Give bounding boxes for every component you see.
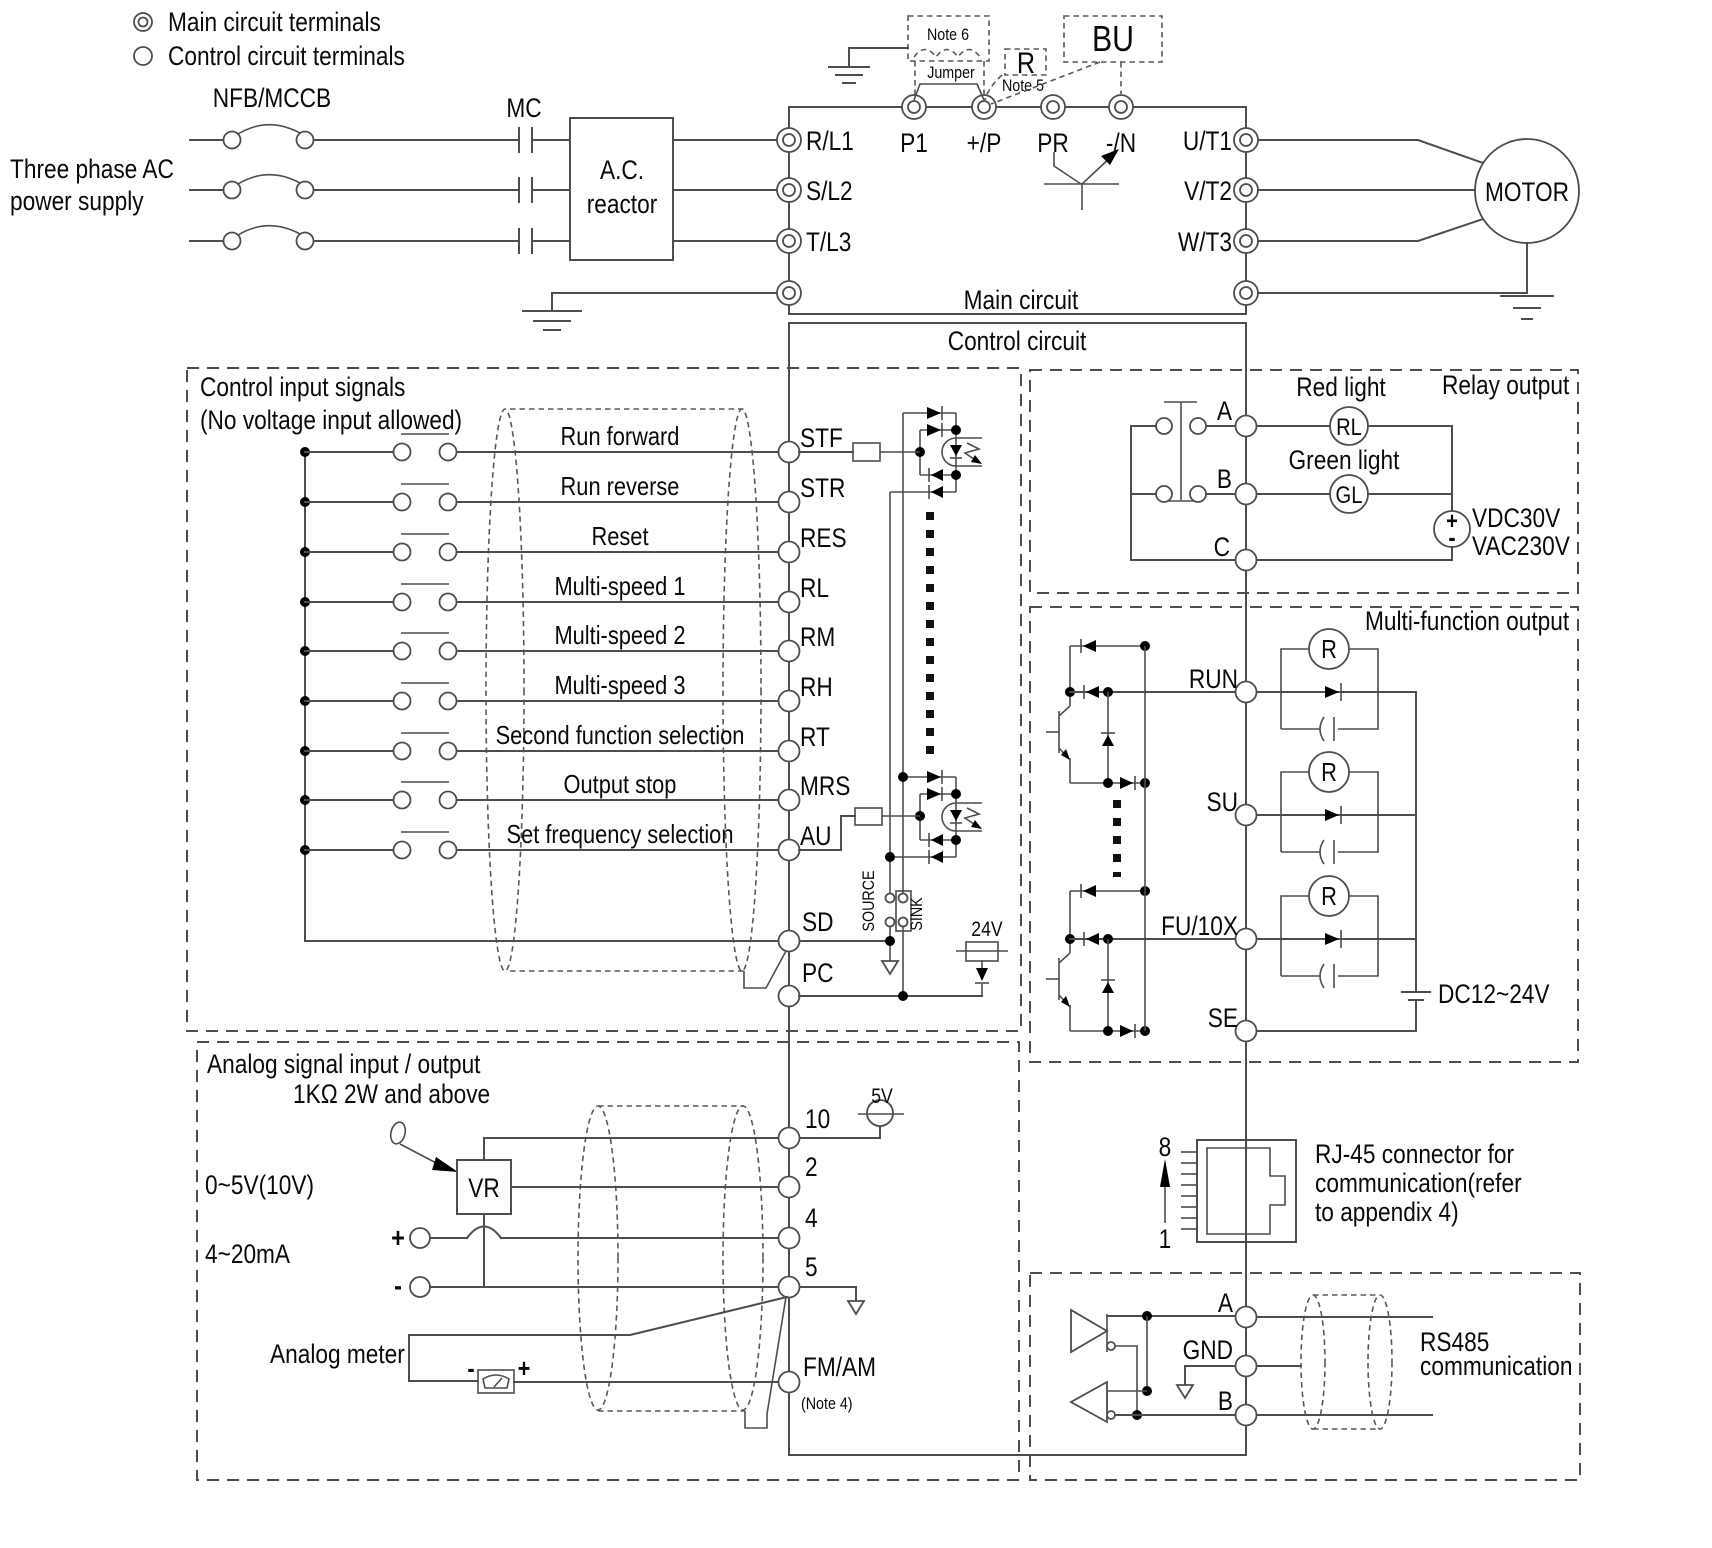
dashed drop to P1 [914, 61, 916, 98]
node B branch [1132, 1410, 1142, 1420]
relay contact A pair [1156, 418, 1206, 434]
diode IC1 (STF/STR input) inner top [927, 423, 942, 437]
node Q2 (FU/10X) collector-row [1065, 934, 1075, 944]
node: bus junction RES [300, 547, 310, 557]
diode Q2 (FU/10X) freewheel (up) [1101, 980, 1115, 993]
node IC2 (MRS/AU input) rail top [951, 789, 961, 799]
wire Q1 (RUN) bottom [1070, 782, 1145, 784]
wire bus to switch RM [305, 650, 393, 652]
ground wire top-left [849, 48, 908, 67]
wire reactor to R/L1 [673, 139, 777, 141]
opto IC2 (MRS/AU input): LED outline [942, 803, 956, 831]
svg-text:communication: communication [1420, 1351, 1572, 1381]
relay contact B pair [1156, 486, 1206, 502]
wire bus to switch AU [305, 849, 393, 851]
diode Q1 (RUN) freewheel (up) [1101, 733, 1115, 746]
svg-text:Main circuit terminals: Main circuit terminals [168, 7, 381, 37]
terminal RUN [1236, 682, 1257, 703]
jumper pin sink top [899, 894, 908, 903]
R dashed box (brake resistor) [1005, 49, 1046, 75]
relay armature bar [1162, 402, 1199, 501]
diode IC2 (MRS/AU input) outer top [927, 770, 942, 784]
control circuit right rail [1245, 323, 1247, 1455]
wire SD row [305, 940, 777, 942]
relay coil RUN [1309, 629, 1349, 669]
node Q1 (RUN) row-mid [1103, 687, 1113, 697]
svg-text:Control circuit terminals: Control circuit terminals [168, 41, 405, 71]
node: bus junction RT [300, 746, 310, 756]
svg-text:24V: 24V [971, 918, 1002, 942]
svg-text:SINK: SINK [908, 897, 926, 931]
opto IC1 (STF/STR input): cathode rail [955, 413, 957, 492]
opto IC1 (STF/STR input): LED outline [942, 438, 956, 466]
lamp RL [1330, 407, 1368, 445]
node sink rail at outer top 2 [898, 772, 908, 782]
opto IC1 (STF/STR input): outer top wire [903, 412, 956, 414]
svg-text:DC12~24V: DC12~24V [1438, 979, 1550, 1009]
svg-text:STR: STR [800, 473, 845, 503]
node: bus junction STR [300, 497, 310, 507]
wire GND to shield [1257, 1365, 1301, 1367]
wire reactor to T/L3 [673, 240, 777, 242]
svg-text:2: 2 [805, 1152, 818, 1182]
svg-text:SU: SU [1207, 787, 1238, 817]
node: bus junction RL [300, 597, 310, 607]
wire source jumper to SD [889, 927, 891, 961]
transistor Q2 (FU/10X) [1046, 953, 1070, 1007]
inductor (dashed) in Note 6 [914, 50, 980, 58]
node Q1 (RUN) bus-bottom [1140, 778, 1150, 788]
svg-text:R: R [1017, 46, 1035, 80]
terminal ground left [777, 281, 801, 305]
terminal -/N [1109, 95, 1133, 119]
relay coil SU [1309, 752, 1349, 792]
svg-text:+/P: +/P [967, 128, 1002, 158]
wire MC to reactor T [534, 240, 570, 242]
potentiometer VR box [457, 1160, 511, 1214]
terminal GND [1236, 1356, 1257, 1377]
wire SE to bus [1257, 1030, 1416, 1032]
contactor MC pole T [519, 229, 532, 253]
svg-text:VDC30V: VDC30V [1472, 503, 1561, 533]
wire SD to source jumper [800, 940, 890, 942]
ground triangle GND [1177, 1385, 1193, 1398]
opto IC1 (STF/STR input): light arrow [965, 443, 982, 464]
wire A branch down to receiver [1146, 1316, 1148, 1391]
svg-text:4: 4 [805, 1203, 818, 1233]
svg-text:AU: AU [800, 821, 831, 851]
relay coil FU/10X [1309, 876, 1349, 916]
transistor Q1 (RUN) [1046, 706, 1070, 760]
diode Q2 (FU/10X) row [1084, 932, 1099, 946]
diode IC1 (STF/STR input) inner bottom [929, 468, 943, 482]
jumper pin source bottom [886, 918, 895, 927]
wire meter to FM/AM [514, 1381, 777, 1383]
svg-text:BU: BU [1092, 20, 1134, 60]
wire ground right to motor ground [1258, 292, 1527, 294]
wire contact A to terminal A [1206, 425, 1235, 427]
wire bus to switch STR [305, 501, 393, 503]
diode 24V supply [975, 960, 989, 983]
svg-text:PR: PR [1037, 128, 1068, 158]
capacitor SU [1320, 840, 1334, 864]
jumper pin source top [886, 894, 895, 903]
diode RUN wire [1325, 683, 1341, 701]
wire switch to terminal STR [457, 501, 777, 503]
pin order arrow [1160, 1159, 1170, 1223]
dotted continuation multifunction [1113, 800, 1121, 877]
wire Q1 (RUN) collector leg [1069, 646, 1071, 706]
wire GL to source leg [1368, 493, 1452, 495]
RJ-45 jack opening [1207, 1148, 1285, 1234]
meter box [478, 1370, 514, 1393]
dashed link BU to +/P [991, 62, 1100, 104]
switch RES [394, 534, 457, 561]
opto IC1 (STF/STR input): outer bottom wire [890, 491, 956, 493]
wire MC to reactor R [534, 139, 570, 141]
svg-text:A.C.: A.C. [600, 155, 644, 185]
wire B contact to common [1131, 493, 1156, 495]
node: bus junction RM [300, 646, 310, 656]
svg-text:MC: MC [506, 93, 541, 123]
legend symbol: main circuit terminal [134, 13, 152, 31]
Note 6 dashed box [908, 16, 989, 61]
wire switch to terminal RT [457, 750, 777, 752]
RJ-45 pins [1181, 1152, 1197, 1229]
svg-text:10: 10 [805, 1104, 830, 1134]
24V supply box [956, 942, 1008, 961]
terminal W/T3 [1234, 229, 1258, 253]
wire Q2 (FU/10X) collector leg [1069, 891, 1071, 953]
switch MRS [394, 782, 457, 809]
terminal 4 [779, 1228, 800, 1249]
breaker NFB pole T: contacts and blade [224, 226, 314, 250]
svg-text:RT: RT [800, 722, 830, 752]
source VDC30V/VAC230V [1434, 507, 1470, 560]
diode IC1 (STF/STR input) outer bottom [929, 485, 943, 499]
svg-text:R: R [1321, 758, 1337, 787]
svg-text:+: + [391, 1223, 405, 1253]
diode Q2 (FU/10X) bottom [1120, 1024, 1135, 1038]
wire GND to ground [1185, 1366, 1235, 1385]
wire sink jumper to PC wire [902, 927, 904, 996]
terminal PR [1041, 95, 1065, 119]
terminal B (RS485) [1236, 1405, 1257, 1426]
svg-text:+: + [518, 1354, 531, 1383]
node: bus junction MRS [300, 795, 310, 805]
terminal A (RS485) [1236, 1307, 1257, 1328]
resistor AU input [799, 808, 920, 850]
svg-text:MRS: MRS [800, 771, 850, 801]
node Q2 (FU/10X) top-bus [1140, 886, 1150, 896]
ground symbol bottom-left [523, 311, 581, 330]
opto IC2 (MRS/AU input): cathode rail [955, 777, 957, 857]
node IC1 (STF/STR input) rail top [951, 425, 961, 435]
wire switch to terminal RM [457, 650, 777, 652]
svg-text:Reset: Reset [591, 522, 648, 551]
wire minus to terminal 5 [430, 1286, 777, 1288]
wire contact B to terminal B [1206, 493, 1235, 495]
switch RH [394, 683, 457, 710]
svg-text:RES: RES [800, 523, 847, 553]
ground triangle at 5 [848, 1301, 864, 1314]
transistor block Q2 (FU/10X): top clamp wire [1070, 890, 1145, 892]
svg-text:Set frequency selection: Set frequency selection [507, 820, 734, 849]
RJ-45 connector outer body [1197, 1140, 1296, 1242]
shield oval analog: right cap [723, 1106, 763, 1410]
terminal MRS [779, 790, 800, 811]
control circuit left rail [788, 323, 790, 1455]
terminal SD [779, 931, 800, 952]
opto IC2 (MRS/AU input): light arrow [965, 808, 982, 829]
svg-text:4~20mA: 4~20mA [205, 1239, 290, 1269]
relay coil loop SU: frame [1281, 772, 1378, 852]
terminal C [1236, 550, 1257, 571]
jumper bracket P1 to +/P [914, 84, 984, 100]
opto IC2 (MRS/AU input): inner top wire [920, 793, 956, 795]
brake transistor emitter arrow to -/N [1082, 149, 1119, 184]
diode IC2 (MRS/AU input) outer bottom [929, 850, 943, 864]
svg-text:Run forward: Run forward [561, 422, 680, 451]
terminal U/T1 [1234, 128, 1258, 152]
terminal 5 [779, 1277, 800, 1298]
svg-text:0~5V(10V): 0~5V(10V) [205, 1170, 314, 1200]
terminal S/L2 [777, 178, 801, 202]
terminal V/T2 [1234, 178, 1258, 202]
RS485 receiver buffer [1071, 1382, 1107, 1422]
wire R to MC [314, 139, 517, 141]
svg-text:5: 5 [805, 1252, 818, 1282]
svg-text:to appendix 4): to appendix 4) [1315, 1197, 1459, 1227]
svg-text:A: A [1218, 1288, 1233, 1318]
capacitor FU/10X [1320, 964, 1334, 988]
wire switch to terminal AU [457, 849, 777, 851]
relay coil loop RUN: frame [1281, 649, 1378, 729]
shield oval analog: bottom [598, 1410, 745, 1412]
wire RUN to bus [1257, 691, 1416, 693]
svg-text:RJ-45 connector for: RJ-45 connector for [1315, 1139, 1514, 1169]
ground symbol motor [1501, 296, 1553, 319]
wire reactor to S/L2 [673, 189, 777, 191]
opto IC2 (MRS/AU input): outer top wire [903, 776, 956, 778]
terminal circle minus [410, 1277, 430, 1297]
node IC1 (STF/STR input) signal feed [915, 447, 925, 457]
wire C to source [1257, 559, 1452, 561]
svg-text:Multi-speed 1: Multi-speed 1 [554, 572, 685, 601]
svg-text:R: R [1321, 882, 1337, 911]
svg-text:RL: RL [800, 573, 829, 603]
opto IC1 (STF/STR input): LED diode [950, 445, 962, 458]
opto IC1 (STF/STR input): inner top wire [920, 429, 956, 431]
main circuit box [789, 107, 1246, 314]
svg-text:R/L1: R/L1 [806, 126, 854, 156]
relay output dashed box [1030, 370, 1578, 593]
brake transistor lower lead [1081, 184, 1083, 210]
diode FU wire [1325, 930, 1341, 948]
wire A to cable [1257, 1316, 1432, 1318]
svg-text:8: 8 [1159, 1132, 1172, 1162]
svg-text:Main circuit: Main circuit [964, 285, 1079, 315]
wire lamps to source [1368, 426, 1452, 512]
wire to terminal B [1115, 1414, 1235, 1416]
opto IC1 (STF/STR input): inner left leg [919, 430, 921, 475]
motor circle [1475, 139, 1579, 243]
opto IC2 (MRS/AU input): LED diode [950, 810, 962, 823]
terminal P1 [902, 95, 926, 119]
callout loop and arrow to VR [389, 1121, 458, 1172]
svg-text:R: R [1321, 635, 1337, 664]
node PC junction [898, 991, 908, 1001]
wire left ground terminal [552, 293, 777, 311]
shield oval control input: top [510, 408, 744, 410]
svg-text:GND: GND [1183, 1335, 1233, 1365]
diode SU wire [1325, 806, 1341, 824]
analog signal dashed box [197, 1042, 1019, 1480]
diode Q1 (RUN) top clamp [1081, 639, 1096, 653]
svg-text:(Note 4): (Note 4) [801, 1395, 853, 1413]
BU dashed box (brake unit) [1064, 16, 1162, 62]
terminal STF [779, 442, 800, 463]
opto IC2 (MRS/AU input): outer bottom wire [890, 856, 956, 858]
wire Q2 (FU/10X) bottom [1070, 1030, 1145, 1032]
wire bus to switch MRS [305, 799, 393, 801]
svg-text:C: C [1214, 532, 1230, 562]
wire bus to switch RH [305, 700, 393, 702]
terminal R/L1 [777, 128, 801, 152]
terminal AU [779, 840, 800, 861]
svg-text:communication(refer: communication(refer [1315, 1168, 1522, 1198]
svg-text:Relay output: Relay output [1442, 370, 1569, 400]
svg-text:Analog meter: Analog meter [270, 1339, 405, 1369]
capacitor RUN [1320, 717, 1334, 741]
terminal RL [779, 592, 800, 613]
load bus right [1415, 692, 1417, 992]
RS485 driver buffer [1071, 1310, 1107, 1352]
A.C. reactor box [570, 118, 673, 260]
svg-text:Note 6: Note 6 [927, 26, 969, 44]
wire T to MC [314, 240, 517, 242]
wire B to cable [1257, 1414, 1432, 1416]
wire bubble link down [1115, 1346, 1137, 1415]
terminal SE [1236, 1021, 1257, 1042]
switch STF [394, 434, 457, 461]
transistor block Q1 (RUN): top clamp wire [1070, 645, 1145, 647]
opto IC1 (STF/STR input): LED leads [956, 438, 982, 466]
terminal RM [779, 641, 800, 662]
shield oval control input: bottom [510, 970, 744, 972]
svg-text:RH: RH [800, 672, 833, 702]
motor ground stem [1526, 243, 1528, 293]
dashed link BU to -/N [1120, 62, 1122, 94]
svg-text:RM: RM [800, 622, 835, 652]
terminal RH [779, 691, 800, 712]
terminal circle plus [410, 1228, 430, 1248]
svg-text:Control circuit: Control circuit [948, 326, 1087, 356]
svg-text:reactor: reactor [587, 189, 658, 219]
lamp GL [1330, 475, 1368, 513]
terminal SU [1236, 805, 1257, 826]
dashed link R box to +/P [985, 75, 1002, 100]
control circuit bottom wire [789, 1454, 1246, 1456]
svg-text:A: A [1217, 396, 1232, 426]
wire A to RL [1257, 425, 1330, 427]
svg-text:Three phase AC: Three phase AC [10, 154, 174, 184]
node: bus junction RH [300, 696, 310, 706]
24V internal supply: stem [981, 984, 983, 996]
jumper block SINK position [896, 891, 911, 931]
diode Q1 (RUN) bottom [1120, 776, 1135, 790]
shield oval control input: right cap [723, 409, 761, 971]
shield drain to SD [744, 951, 786, 988]
opto IC1 (STF/STR input): inner bottom wire [920, 474, 956, 476]
terminal RT [779, 741, 800, 762]
svg-text:Red light: Red light [1296, 372, 1386, 402]
shield oval analog: left cap [578, 1106, 618, 1410]
wire VR bottom leg [483, 1214, 485, 1287]
control circuit box top edge [789, 322, 1246, 324]
shield oval analog: top [598, 1105, 743, 1107]
wire terminal 5 to ground [800, 1287, 856, 1301]
opto IC2 (MRS/AU input): inner left leg [919, 794, 921, 840]
brake transistor bar [1044, 183, 1119, 185]
input common bus [304, 452, 306, 941]
breaker NFB pole R: wire [190, 139, 223, 141]
node receiver input [1142, 1386, 1152, 1396]
switch STR [394, 484, 457, 511]
terminal STR [779, 492, 800, 513]
shield oval RS485: top [1313, 1294, 1380, 1296]
svg-text:power supply: power supply [10, 186, 144, 216]
wire switch to terminal STF [457, 451, 777, 453]
svg-text:SD: SD [802, 907, 833, 937]
battery DC12~24V [1402, 992, 1430, 1031]
node: bus junction AU [300, 845, 310, 855]
node: bus junction STF [300, 447, 310, 457]
diode Q1 (RUN) row [1084, 685, 1099, 699]
node Q1 (RUN) top-bus [1140, 641, 1150, 651]
svg-text:SE: SE [1208, 1003, 1238, 1033]
svg-text:RUN: RUN [1189, 664, 1238, 694]
wire Q1 (RUN) emitter leg [1069, 758, 1071, 783]
jumper pin sink bottom [899, 918, 908, 927]
diode IC1 (STF/STR input) outer top [927, 406, 942, 420]
svg-text:Second function selection: Second function selection [496, 721, 745, 750]
svg-text:Control input signals: Control input signals [200, 372, 405, 402]
wire S to MC [314, 189, 517, 191]
svg-text:VAC230V: VAC230V [1472, 531, 1570, 561]
svg-text:FM/AM: FM/AM [803, 1352, 876, 1382]
resistor STF input [799, 443, 920, 461]
wire switch to terminal RES [457, 551, 777, 553]
svg-text:MOTOR: MOTOR [1485, 177, 1569, 207]
dashed drop to +/P [983, 61, 985, 96]
node Q2 (FU/10X) bus-bottom [1140, 1026, 1150, 1036]
svg-text:PC: PC [802, 958, 833, 988]
wire Q2 (FU/10X) freewheel leg [1107, 939, 1109, 1031]
wire sink rail (right) [902, 413, 904, 894]
ground symbol top-left [829, 67, 869, 83]
shield oval RS485: right cap [1368, 1295, 1392, 1429]
svg-text:SOURCE: SOURCE [860, 870, 878, 931]
terminal FU/10X [1236, 929, 1257, 950]
diode IC2 (MRS/AU input) inner top [927, 787, 942, 801]
RS485 receiver bubble [1107, 1411, 1115, 1419]
svg-text:P1: P1 [900, 128, 928, 158]
terminal B [1236, 484, 1257, 505]
svg-text:Multi-function output: Multi-function output [1365, 606, 1569, 636]
svg-text:FU/10X: FU/10X [1161, 911, 1238, 941]
wire B to GL [1257, 493, 1330, 495]
